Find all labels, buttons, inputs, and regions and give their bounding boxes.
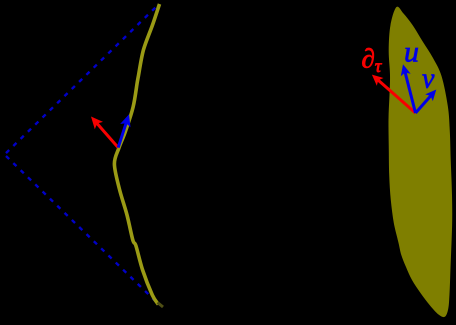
vector d_tau: [372, 75, 416, 113]
surface patch (olive blob): [388, 7, 452, 317]
svg-text:u: u: [404, 36, 419, 69]
vector v: [416, 90, 437, 114]
vector u: [401, 64, 416, 113]
junction nub at curve end: [158, 303, 164, 308]
worldline curve: [114, 4, 159, 305]
wire: upper dashed light-cone edge: [6, 6, 158, 154]
left blue vector: [118, 114, 130, 147]
left red vector: [91, 117, 118, 148]
wire: lower dashed light-cone edge: [6, 156, 160, 305]
svg-text:v: v: [422, 64, 435, 95]
svg-text:∂τ: ∂τ: [362, 44, 382, 77]
